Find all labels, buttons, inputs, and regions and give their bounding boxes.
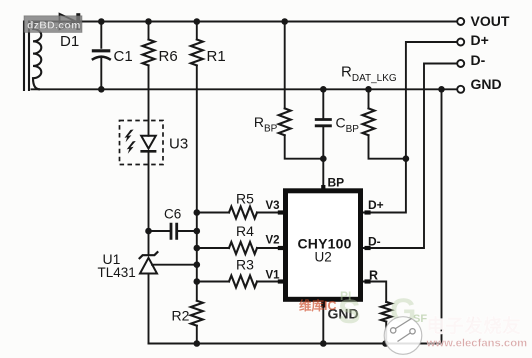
wire RBP bottom lead bbox=[285, 135, 324, 158]
wire D+ net bbox=[363, 42, 457, 213]
wire CBP top lead bbox=[322, 89, 324, 118]
resistor R bias on R pin bbox=[381, 302, 391, 322]
resistor R6 bbox=[143, 40, 155, 66]
svg-text:GND: GND bbox=[471, 76, 502, 92]
node D+ / RDAT junction bbox=[403, 155, 410, 162]
opto-coupler U3 dashed box bbox=[120, 121, 164, 165]
svg-text:维库IC: 维库IC bbox=[299, 298, 337, 313]
node C6 right bbox=[194, 228, 201, 235]
svg-text:R3: R3 bbox=[236, 256, 254, 272]
shunt regulator U1 TL431 bbox=[139, 251, 158, 273]
node GND drop bbox=[438, 86, 445, 93]
svg-text:电子发烧友: 电子发烧友 bbox=[427, 316, 522, 337]
wire R5 to V3 pin bbox=[197, 212, 283, 214]
watermark faint green characters bbox=[338, 289, 427, 331]
resistor R2 bbox=[191, 301, 203, 326]
svg-text:R1: R1 bbox=[207, 48, 226, 65]
node TL431 REF bbox=[194, 261, 201, 268]
svg-text:R2: R2 bbox=[172, 307, 190, 323]
terminal GND bbox=[457, 86, 464, 93]
svg-text:R6: R6 bbox=[159, 48, 178, 65]
svg-text:R: R bbox=[369, 268, 378, 282]
node C1 bottom bbox=[98, 86, 105, 93]
node C1 top bbox=[98, 18, 105, 25]
IC U2 CHY100 body bbox=[286, 191, 361, 299]
wire LED cathode to C6 node bbox=[148, 152, 150, 255]
resistor RBP bbox=[279, 108, 291, 135]
svg-text:www.elecfans.com: www.elecfans.com bbox=[426, 337, 528, 349]
terminal D- bbox=[457, 60, 464, 67]
svg-text:U2: U2 bbox=[315, 249, 332, 264]
svg-text:dzBD.com: dzBD.com bbox=[27, 20, 81, 32]
wire RDAT bottom lead to D+ net bbox=[369, 135, 406, 158]
node CBP top bbox=[320, 86, 327, 93]
node R6 top bbox=[145, 18, 152, 25]
svg-text:TL431: TL431 bbox=[98, 265, 136, 280]
svg-text:C6: C6 bbox=[164, 206, 181, 221]
node IC GND to rail bbox=[320, 340, 327, 347]
svg-text:U3: U3 bbox=[169, 136, 188, 153]
svg-text:D+: D+ bbox=[368, 198, 384, 212]
node R1 top bbox=[194, 18, 201, 25]
wire CBP bottom lead / BP net bbox=[322, 127, 324, 191]
svg-text:D+: D+ bbox=[471, 32, 489, 48]
opto-coupler U3 light arrows bbox=[125, 130, 136, 154]
wire C6 left lead bbox=[149, 230, 170, 232]
diode D1 bbox=[60, 13, 79, 30]
node RBP top bbox=[281, 18, 288, 25]
wire D- net bbox=[363, 64, 457, 249]
wire R4 to V2 pin bbox=[197, 247, 283, 249]
node V1 feedback bbox=[194, 278, 201, 285]
wire top VOUT rail bbox=[33, 21, 457, 23]
wire R2 bottom lead bbox=[196, 326, 198, 344]
IC U2 pin stubs bbox=[278, 185, 371, 308]
wire R3 to V1 pin bbox=[197, 281, 283, 283]
capacitor C1 (polarized) bbox=[92, 51, 111, 60]
transformer T1 secondary winding bbox=[33, 22, 41, 90]
wire TL431 anode to bottom rail bbox=[148, 274, 150, 344]
capacitor C6 bbox=[171, 223, 177, 240]
watermark grey box over D1 bbox=[24, 16, 82, 33]
svg-text:V1: V1 bbox=[266, 270, 281, 282]
resistor R1 bbox=[191, 40, 203, 66]
node bias resistor bottom bbox=[382, 340, 389, 347]
svg-text:V2: V2 bbox=[266, 235, 280, 247]
node V3 feedback bbox=[194, 209, 201, 216]
wire R pin to bias resistor bbox=[363, 282, 386, 344]
svg-text:VOUT: VOUT bbox=[471, 13, 510, 29]
svg-text:R5: R5 bbox=[236, 191, 254, 207]
wire GND drop to bottom rail bbox=[441, 89, 443, 343]
node RDAT top bbox=[365, 86, 372, 93]
svg-text:BP: BP bbox=[328, 175, 345, 189]
wire C1 column bbox=[100, 22, 102, 90]
resistor R5 bbox=[229, 207, 257, 219]
svg-text:C1: C1 bbox=[114, 48, 133, 65]
node V2 feedback bbox=[194, 245, 201, 252]
resistor R3 bbox=[229, 276, 257, 288]
wire secondary GND rail bbox=[32, 88, 457, 90]
wire R6/U3/TL431 column top bbox=[148, 22, 150, 40]
wire R1 bottom / feedback column bbox=[196, 65, 198, 300]
svg-text:PI: PI bbox=[340, 289, 351, 303]
wire C6 right lead bbox=[178, 230, 197, 232]
svg-text:D-: D- bbox=[368, 234, 381, 248]
watermark elecfans logo disc bbox=[384, 317, 422, 355]
resistor R4 bbox=[229, 242, 257, 254]
capacitor CBP bbox=[315, 120, 332, 126]
resistor RDAT_LKG bbox=[363, 108, 375, 135]
node C6 left bbox=[145, 228, 152, 235]
wire RBP column from VOUT rail bbox=[284, 21, 286, 108]
transformer T1 core bbox=[24, 21, 29, 92]
wire R6 bottom to LED bbox=[148, 65, 150, 135]
svg-text:D-: D- bbox=[471, 52, 486, 68]
wire IC GND pin lead bbox=[322, 302, 324, 344]
svg-text:V3: V3 bbox=[266, 200, 280, 212]
opto-coupler U3 LED bbox=[140, 136, 156, 152]
svg-text:R4: R4 bbox=[236, 223, 254, 239]
wire R1 column top bbox=[196, 22, 198, 40]
wire bottom GND return rail bbox=[149, 343, 442, 345]
terminal VOUT bbox=[457, 18, 464, 25]
node R2 bottom bbox=[194, 340, 201, 347]
wire RDAT top lead bbox=[368, 89, 370, 108]
node BP bus bbox=[320, 155, 327, 162]
wire TL431 REF to feedback node bbox=[152, 264, 197, 266]
svg-text:D1: D1 bbox=[60, 33, 79, 50]
terminal D+ bbox=[457, 39, 464, 46]
